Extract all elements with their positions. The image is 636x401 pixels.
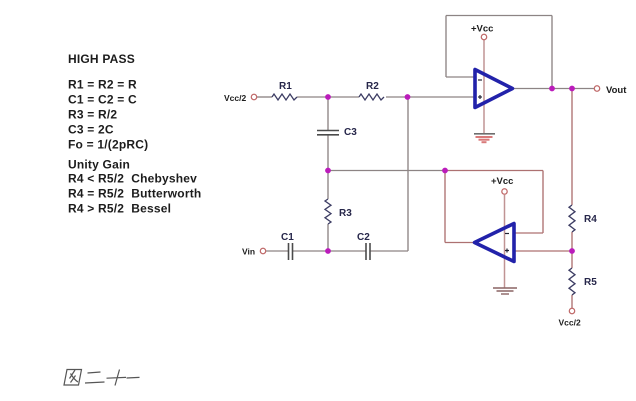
svg-text:Vcc/2: Vcc/2 [559, 318, 581, 328]
svg-text:Fo = 1/(2pRC): Fo = 1/(2pRC) [68, 138, 148, 152]
svg-text:R5: R5 [584, 277, 597, 288]
wire U1 output to Vout terminal through nodes F and G [513, 88, 595, 90]
svg-text:Vin: Vin [242, 247, 255, 257]
wire node A down to C3 top plate [327, 97, 329, 131]
wire R3 bottom to node H [327, 224, 329, 251]
svg-text:R4: R4 [584, 214, 597, 225]
svg-text:HIGH PASS: HIGH PASS [68, 52, 135, 66]
wire Vcc/2 terminal to R1 [257, 96, 272, 98]
wire node G down to R4 [571, 89, 573, 206]
wire +Vcc supply stem through U2 to ground [504, 195, 506, 288]
wire Vin terminal to C1 [266, 250, 288, 252]
node H junction C1/C2/R3 [325, 248, 331, 254]
svg-text:R1 = R2 = R: R1 = R2 = R [68, 78, 137, 92]
caption 图二十一 (figure twenty-one) drawn strokes [64, 370, 140, 386]
wire feedback U1 left vertical [445, 16, 447, 78]
svg-text:C1: C1 [281, 232, 294, 243]
resistor R2 [359, 94, 384, 100]
svg-text:+Vcc: +Vcc [491, 176, 513, 187]
svg-text:+Vcc: +Vcc [471, 24, 493, 35]
resistor R1 [272, 94, 297, 100]
svg-text:R3 = R/2: R3 = R/2 [68, 108, 117, 122]
input terminal Vin [242, 247, 266, 257]
svg-text:R1: R1 [279, 81, 292, 92]
capacitor C2 [357, 232, 370, 260]
wire U2 + input to node E [514, 250, 572, 252]
node E junction R4/R5/U2 input [569, 248, 575, 254]
op-amp U1 [475, 70, 513, 108]
wire node D down to U2 output level [444, 171, 446, 243]
svg-text:C3 = 2C: C3 = 2C [68, 123, 114, 137]
capacitor C3 [317, 127, 357, 138]
ground under U2 [493, 288, 517, 294]
output terminal Vout [594, 85, 627, 96]
wire vertical from corner up to node B [407, 97, 409, 251]
wire node D to feedback corner of U2 [445, 170, 543, 172]
wire feedback U1 right vertical [551, 16, 553, 89]
svg-text:R4 < R5/2 Chebyshev: R4 < R5/2 Chebyshev [68, 172, 197, 186]
node B junction R2/vertical [405, 94, 411, 100]
svg-text:C1 = C2 = C: C1 = C2 = C [68, 93, 137, 107]
wire C1 to C2 through node H [293, 250, 366, 252]
op-amp U2 [475, 224, 515, 262]
wire +Vcc supply stem through U1 to ground [483, 40, 485, 133]
node D junction U2 output branch [442, 168, 448, 174]
node C junction C3/R3/mid wire [325, 168, 331, 174]
wire R2 to op-amp U1 + input through node B [386, 96, 474, 98]
wire R1 to R2 through node A [297, 96, 359, 98]
resistor R5 [569, 268, 575, 295]
svg-text:R4 > R5/2 Bessel: R4 > R5/2 Bessel [68, 202, 171, 216]
svg-text:Vcc/2: Vcc/2 [224, 93, 246, 103]
svg-text:Unity Gain: Unity Gain [68, 158, 130, 172]
svg-text:R2: R2 [366, 81, 379, 92]
svg-text:C2: C2 [357, 232, 370, 243]
resistor R4 [569, 205, 575, 232]
wire feedback U2 to - input [514, 232, 543, 234]
svg-text:R4 = R5/2 Butterworth: R4 = R5/2 Butterworth [68, 187, 201, 201]
wire C2 right to corner [370, 250, 408, 252]
input terminal Vcc/2 (left) [224, 93, 257, 103]
ground under U1 [474, 134, 495, 142]
node A junction R1/R2/C3 [325, 94, 331, 100]
wire feedback U1 to - input [446, 76, 474, 78]
bottom terminal Vcc/2 (under R5) [559, 308, 581, 327]
svg-text:R3: R3 [339, 208, 352, 219]
power terminal +Vcc for U1 [471, 24, 493, 40]
resistor R3 [325, 199, 331, 224]
wire mid horizontal node C to feedback corner of U2 [328, 170, 445, 172]
wire R5 bottom to Vcc/2 terminal [571, 295, 573, 309]
wire to U2 output tip [445, 242, 475, 244]
wire feedback U1 top [446, 15, 552, 17]
wire C3 bottom plate to R3 top through node C [327, 135, 329, 199]
wire R4 bottom to R5 top through node E [571, 232, 573, 268]
svg-text:Vout: Vout [606, 85, 627, 96]
node F junction U1 output feedback [549, 86, 555, 92]
capacitor C1 [281, 232, 294, 260]
svg-text:C3: C3 [344, 127, 357, 138]
wire feedback U2 right vertical [542, 171, 544, 234]
node G junction R4 branch [569, 86, 575, 92]
power terminal +Vcc for U2 [491, 176, 513, 194]
